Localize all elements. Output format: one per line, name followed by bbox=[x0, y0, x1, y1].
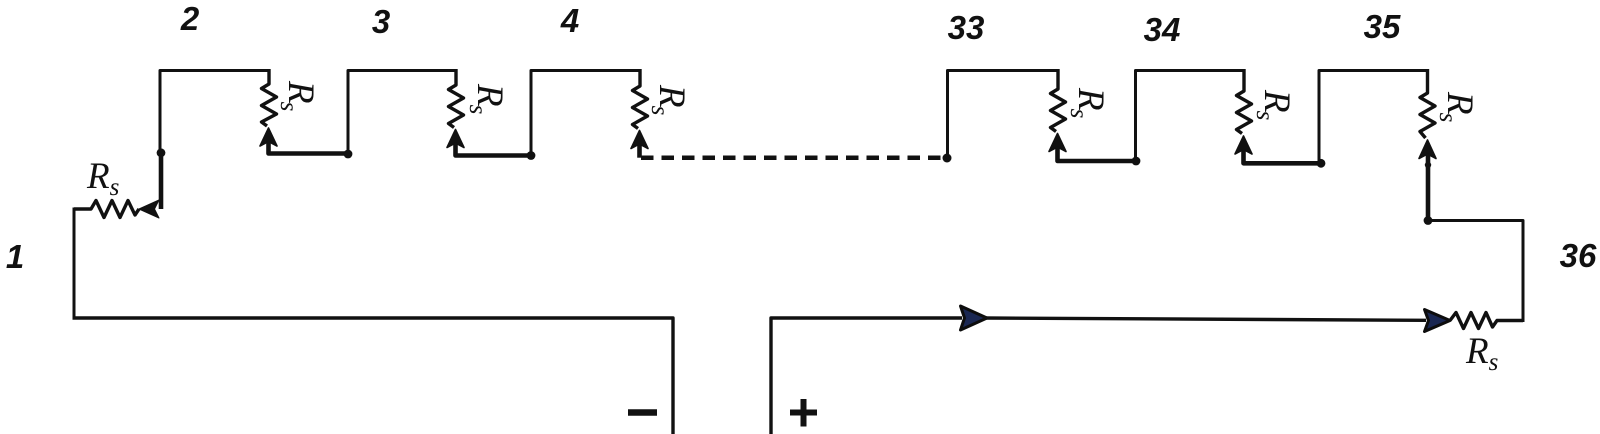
svg-text:2: 2 bbox=[180, 0, 200, 37]
wire segment 34 bottom (thick) bbox=[1244, 150, 1322, 163]
resistor Rs (segment 3, vertical) bbox=[449, 69, 464, 128]
wire left vertical from node 1 bbox=[73, 208, 76, 319]
value label Rs (segment 34, rotated) bbox=[1251, 89, 1297, 120]
resistor Rs (segment 36, horizontal) bbox=[1450, 313, 1523, 329]
wire section 4 top bbox=[531, 71, 640, 156]
resistor Rs (segment 35, vertical) bbox=[1420, 69, 1435, 138]
junction dot on brush 36 riser bbox=[1425, 162, 1431, 168]
junction dot node 3 bbox=[344, 150, 353, 159]
junction dot node 2 tap bbox=[157, 148, 166, 157]
wire bottom right toward Rs 36 bbox=[983, 318, 1426, 320]
current arrow into Rs 36 (filled navy) bbox=[1425, 310, 1451, 332]
value label Rs (segment 2, rotated) bbox=[275, 80, 321, 111]
arrow into segment 2 resistor (points up) bbox=[260, 128, 277, 146]
resistor Rs (segment 2, vertical) bbox=[262, 69, 277, 126]
junction dot node 4 bbox=[527, 151, 536, 160]
arrow into segment 4 resistor (points up) bbox=[631, 131, 648, 149]
current arrow on positive wire (filled navy) bbox=[961, 306, 988, 330]
wire bottom left to negative terminal bbox=[73, 318, 674, 434]
wire section 2 top bbox=[160, 71, 269, 153]
resistor Rs (brush 1, horizontal) bbox=[74, 201, 139, 218]
positive terminal symbol bbox=[790, 399, 817, 427]
junction dot node 34 bbox=[1132, 157, 1141, 166]
dashed wire (segments 5..32 omitted) bbox=[641, 155, 947, 160]
svg-text:4: 4 bbox=[560, 2, 579, 39]
value label Rs (segment 35, rotated) bbox=[1434, 91, 1480, 122]
svg-text:1: 1 bbox=[6, 238, 24, 275]
value label Rs (segment 3, rotated) bbox=[464, 83, 510, 114]
wire section 3 top bbox=[348, 71, 456, 154]
negative terminal symbol bbox=[628, 409, 657, 416]
wire section 34 top bbox=[1136, 71, 1245, 161]
wire segment 3 bottom (thick) bbox=[456, 144, 532, 156]
value label Rs (segment 4, rotated) bbox=[646, 84, 692, 115]
junction dot node 35 bbox=[1317, 159, 1326, 168]
resistor Rs (segment 33, vertical) bbox=[1051, 69, 1066, 132]
wire segment 33 bottom (thick) bbox=[1058, 148, 1137, 162]
arrow into brush 1 (points left) bbox=[139, 200, 159, 218]
value label Rs (segment 33, rotated) bbox=[1065, 87, 1111, 118]
junction dot node 36 corner bbox=[1424, 216, 1433, 225]
arrow into segment 3 resistor (points up) bbox=[447, 130, 464, 148]
svg-text:34: 34 bbox=[1144, 11, 1181, 48]
wire brush 1 riser (thick) bbox=[159, 152, 164, 209]
svg-text:36: 36 bbox=[1560, 237, 1597, 274]
resistor Rs (segment 4, vertical) bbox=[633, 69, 648, 129]
wire brush 36 riser (thick) bbox=[1426, 154, 1431, 221]
arrow into segment 33 resistor (points up) bbox=[1049, 134, 1066, 152]
wire segment 2 bottom (thick) bbox=[269, 142, 349, 154]
arrow into segment 35 resistor (points up) bbox=[1419, 140, 1436, 159]
svg-text:35: 35 bbox=[1364, 8, 1401, 45]
svg-text:3: 3 bbox=[372, 3, 390, 40]
resistor Rs (segment 34, vertical) bbox=[1237, 69, 1252, 134]
positive terminal riser bbox=[771, 318, 962, 434]
svg-text:33: 33 bbox=[948, 9, 985, 46]
wire section 35 top bbox=[1319, 71, 1428, 163]
wire section 33 top bbox=[948, 71, 1059, 159]
junction dot node 33 tap bbox=[943, 154, 952, 163]
arrow into segment 34 resistor (points up) bbox=[1235, 136, 1252, 154]
wire segment 4 stem bbox=[637, 145, 642, 158]
wire right side up from Rs 36 bbox=[1428, 221, 1523, 323]
